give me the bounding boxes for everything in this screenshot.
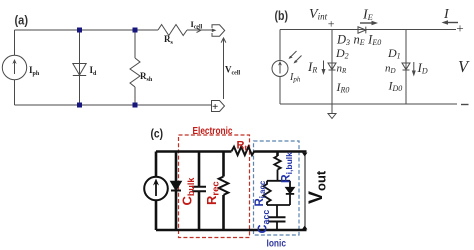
wire: (c) left rail <box>155 152 158 231</box>
wire: Cacc to bottom <box>276 222 278 230</box>
svg-text:(c): (c) <box>151 129 164 141</box>
resistor Rs <box>158 25 187 36</box>
svg-text:+: + <box>327 17 335 31</box>
svg-text:(b): (b) <box>275 9 289 23</box>
diode D2 <box>328 63 336 70</box>
wire: Rrec branch lower <box>222 195 225 230</box>
blue dashed box Ionic <box>254 141 300 235</box>
svg-text:Electronic: Electronic <box>193 125 233 137</box>
wire: (b) bottom wire <box>280 103 457 105</box>
terminal top (output port) <box>212 25 225 36</box>
resistor Rrec <box>219 177 229 195</box>
arrow I (right) <box>446 22 458 24</box>
wire: capacitor branch lower <box>198 191 201 230</box>
wire: diode branch <box>79 30 81 105</box>
terminal bottom (output port, +) <box>212 101 225 112</box>
svg-text:Ionic: Ionic <box>267 239 287 250</box>
arrow ID <box>413 62 415 73</box>
label minus (right) <box>461 104 469 106</box>
wire: (b) top wire <box>280 29 456 31</box>
capacitor plates <box>192 187 206 191</box>
node squares <box>77 28 138 108</box>
wire: (a) bottom wire <box>15 104 212 106</box>
wire: Vout measure line <box>304 153 306 228</box>
diode Ld <box>73 64 86 76</box>
node bottom-left <box>77 103 82 108</box>
current source Iph (b) <box>272 61 288 77</box>
current source (c) <box>144 177 168 201</box>
terminal marks Vout <box>302 153 307 157</box>
wire: (c) top wire right <box>255 150 307 153</box>
diode D1 <box>402 63 410 70</box>
resistor Ribulk <box>274 156 280 170</box>
wire: Ribulk branch top <box>276 152 279 157</box>
wire: Rsh branch upper <box>134 30 136 58</box>
arrowhead at top terminal entry <box>212 29 217 33</box>
svg-text:(a): (a) <box>15 14 29 28</box>
diode acc branch <box>289 181 291 188</box>
wire: Rsh branch lower <box>134 87 136 105</box>
svg-text:+: + <box>456 21 465 36</box>
wire: (b) left rail <box>279 30 281 105</box>
wire: parallel top bar <box>267 180 290 182</box>
wire: (a) top wire right segment <box>187 29 212 31</box>
red dashed box Electronic <box>179 135 250 238</box>
light arrow 2 <box>295 56 302 63</box>
wire: (c) top wire <box>156 150 232 153</box>
resistor Rt <box>232 147 255 155</box>
wire: capacitor branch upper <box>198 152 201 187</box>
wire: (a) left rail <box>14 30 16 105</box>
node top-right <box>133 28 138 33</box>
wire: to Cacc <box>276 205 278 217</box>
arrowhead Icell on wire <box>197 28 201 32</box>
wire: (c) bottom wire <box>156 229 307 232</box>
resistor Riacc <box>263 181 270 205</box>
capacitor Cacc plates <box>269 217 286 221</box>
wire: Rrec branch upper <box>222 152 225 177</box>
wire: (a) top wire <box>15 29 159 31</box>
wire: Ribulk to parallel node <box>277 170 279 181</box>
diode Cbulk branch <box>171 182 181 191</box>
diode D3 on top wire <box>358 27 366 34</box>
current source Iph <box>2 55 26 79</box>
wire: D1 branch <box>405 30 407 105</box>
arrow IE <box>360 22 373 24</box>
wire: parallel bottom bar <box>267 204 290 206</box>
ground below D2 branch <box>328 104 336 119</box>
arrow IR <box>323 61 325 72</box>
svg-text:+: + <box>212 101 218 113</box>
node top-left <box>77 28 82 33</box>
wire: D2 branch <box>331 30 333 105</box>
resistor Rsh <box>130 58 140 87</box>
node bottom-right <box>133 103 138 108</box>
arrowhead Vcell <box>221 38 226 43</box>
wire: Cbulk diode branch <box>175 152 178 231</box>
light arrow 1 <box>290 51 297 58</box>
wire: Vcell measure line <box>223 38 225 99</box>
